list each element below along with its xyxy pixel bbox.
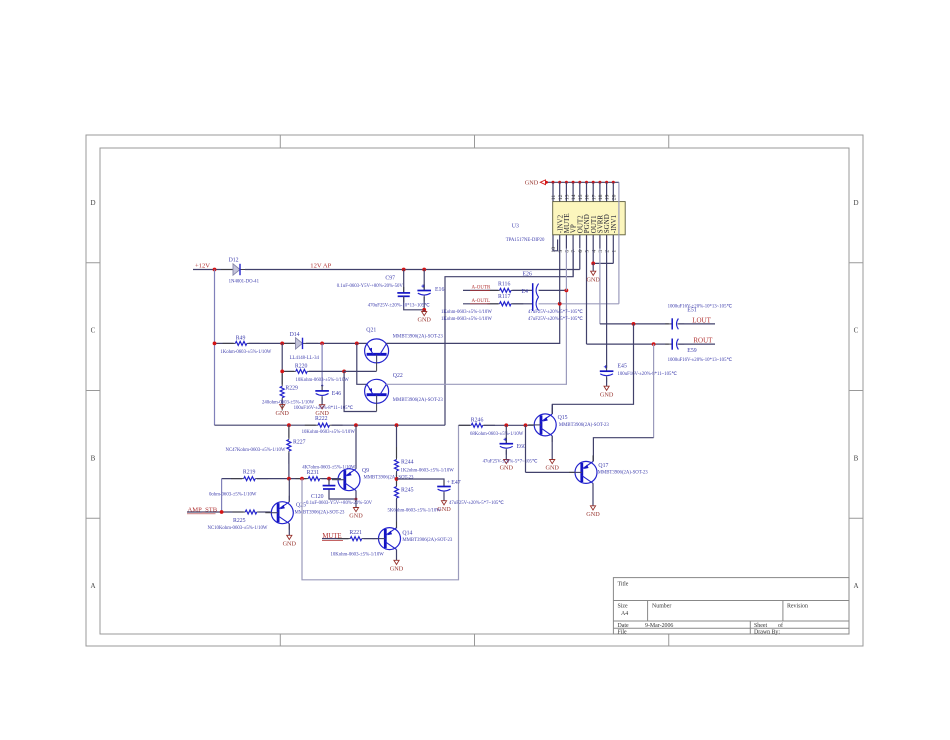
svg-text:C120: C120 bbox=[311, 494, 324, 500]
svg-text:1000uF16V-±20%-10*13~105℃: 1000uF16V-±20%-10*13~105℃ bbox=[668, 304, 733, 310]
svg-text:AMP_STB: AMP_STB bbox=[188, 507, 218, 514]
svg-text:12: 12 bbox=[558, 194, 564, 200]
svg-text:1Kohm-0603-±5%-1/10W: 1Kohm-0603-±5%-1/10W bbox=[441, 310, 492, 315]
svg-text:5: 5 bbox=[585, 250, 591, 253]
svg-text:A-OUTR: A-OUTR bbox=[472, 286, 492, 291]
svg-text:D: D bbox=[90, 199, 95, 207]
svg-text:18: 18 bbox=[598, 194, 604, 200]
svg-text:Q21: Q21 bbox=[366, 327, 376, 333]
svg-text:R117: R117 bbox=[498, 294, 510, 300]
svg-text:+12V: +12V bbox=[195, 263, 210, 270]
svg-text:File: File bbox=[618, 630, 628, 636]
svg-text:GND: GND bbox=[545, 465, 559, 472]
svg-text:R221: R221 bbox=[349, 530, 362, 536]
svg-text:D12: D12 bbox=[229, 258, 239, 264]
svg-text:GND: GND bbox=[525, 180, 539, 187]
svg-text:GND: GND bbox=[600, 391, 614, 398]
svg-text:1Kohm-0603-±5%-1/10W: 1Kohm-0603-±5%-1/10W bbox=[441, 317, 492, 322]
svg-text:R227: R227 bbox=[293, 440, 306, 446]
svg-text:10Kohm-0603-±5%-1/10W: 10Kohm-0603-±5%-1/10W bbox=[331, 553, 385, 558]
svg-text:0ohm-0603-±5%-1/10W: 0ohm-0603-±5%-1/10W bbox=[209, 492, 257, 497]
svg-text:NC47Kohm-0603-±5%-1/10W: NC47Kohm-0603-±5%-1/10W bbox=[226, 448, 286, 453]
svg-text:MMBT3906(2A)-SOT-23: MMBT3906(2A)-SOT-23 bbox=[393, 335, 444, 340]
svg-text:14: 14 bbox=[571, 194, 577, 200]
svg-text:20: 20 bbox=[611, 194, 617, 200]
svg-text:Q25: Q25 bbox=[296, 502, 306, 508]
svg-text:MUTE: MUTE bbox=[322, 533, 341, 540]
svg-text:MMBT3906(2A)-SOT-23: MMBT3906(2A)-SOT-23 bbox=[598, 471, 649, 476]
svg-text:GND: GND bbox=[417, 317, 431, 324]
svg-text:9: 9 bbox=[558, 250, 564, 253]
svg-text:1Kohm-0603-±5%-1/10W: 1Kohm-0603-±5%-1/10W bbox=[220, 350, 271, 355]
svg-text:100uF16V-±20%-8*11~105℃: 100uF16V-±20%-8*11~105℃ bbox=[618, 371, 678, 377]
svg-text:R219: R219 bbox=[243, 470, 256, 476]
svg-text:6: 6 bbox=[578, 250, 584, 253]
svg-text:8: 8 bbox=[565, 250, 571, 253]
svg-text:E46: E46 bbox=[332, 391, 341, 397]
svg-text:GND: GND bbox=[283, 541, 297, 548]
svg-text:U3: U3 bbox=[512, 223, 519, 229]
svg-text:A: A bbox=[853, 582, 858, 590]
svg-text:C: C bbox=[91, 327, 96, 335]
svg-text:0.1uF-0603-Y5V-+80%-20%-50V: 0.1uF-0603-Y5V-+80%-20%-50V bbox=[306, 501, 373, 506]
svg-text:A-OUTL: A-OUTL bbox=[472, 299, 491, 304]
svg-text:Q22: Q22 bbox=[393, 373, 403, 379]
svg-text:R220: R220 bbox=[295, 364, 308, 370]
svg-text:GND: GND bbox=[586, 276, 600, 283]
svg-text:C97: C97 bbox=[385, 275, 395, 281]
svg-text:R246: R246 bbox=[471, 417, 484, 423]
svg-text:Date: Date bbox=[618, 623, 630, 629]
svg-text:68Kohm-0603-±5%-1/10W: 68Kohm-0603-±5%-1/10W bbox=[470, 432, 524, 437]
svg-text:GND: GND bbox=[390, 566, 404, 573]
svg-text:2: 2 bbox=[605, 250, 611, 253]
svg-text:of: of bbox=[778, 622, 783, 629]
svg-text:MMBT3906(2A)-SOT-23: MMBT3906(2A)-SOT-23 bbox=[364, 476, 415, 481]
svg-text:Sheet: Sheet bbox=[754, 623, 767, 629]
svg-text:10: 10 bbox=[551, 247, 557, 253]
svg-text:Q15: Q15 bbox=[558, 415, 568, 421]
svg-text:R49: R49 bbox=[236, 336, 246, 342]
svg-text:7: 7 bbox=[571, 250, 577, 253]
svg-text:9-Mar-2006: 9-Mar-2006 bbox=[645, 623, 673, 629]
svg-text:1000uF16V-±20%-10*13~105℃: 1000uF16V-±20%-10*13~105℃ bbox=[668, 357, 733, 363]
svg-text:0.1uF-0603-Y5V-+80%-20%-50V: 0.1uF-0603-Y5V-+80%-20%-50V bbox=[337, 284, 404, 289]
svg-text:GND: GND bbox=[275, 410, 289, 417]
svg-text:MMBT3906(2A)-SOT-23: MMBT3906(2A)-SOT-23 bbox=[559, 423, 610, 428]
svg-text:E59: E59 bbox=[687, 348, 696, 354]
svg-text:5K6ohm-0603-±5%-1/10W: 5K6ohm-0603-±5%-1/10W bbox=[388, 508, 442, 513]
svg-text:19: 19 bbox=[605, 194, 611, 200]
svg-text:GND: GND bbox=[500, 465, 514, 472]
svg-text:C: C bbox=[854, 327, 859, 335]
svg-text:240ohm-0603-±5%-1/10W: 240ohm-0603-±5%-1/10W bbox=[262, 400, 315, 405]
svg-text:NC10Kohm-0603-±5%-1/10W: NC10Kohm-0603-±5%-1/10W bbox=[208, 526, 268, 531]
svg-text:12V AP: 12V AP bbox=[310, 263, 331, 270]
svg-text:R229: R229 bbox=[285, 385, 298, 391]
svg-text:MMBT3906(2A)-SOT-23: MMBT3906(2A)-SOT-23 bbox=[393, 398, 444, 403]
svg-text:D14: D14 bbox=[290, 332, 300, 338]
svg-text:D: D bbox=[853, 199, 858, 207]
svg-text:GND: GND bbox=[437, 506, 451, 513]
svg-text:47uF25V-±20%-5*7~105℃: 47uF25V-±20%-5*7~105℃ bbox=[528, 316, 583, 322]
svg-text:R244: R244 bbox=[401, 460, 414, 466]
svg-text:Q14: Q14 bbox=[402, 531, 412, 537]
svg-text:E60: E60 bbox=[517, 444, 526, 450]
svg-text:B: B bbox=[91, 454, 96, 462]
svg-text:R225: R225 bbox=[233, 518, 246, 524]
svg-text:+ E47: + E47 bbox=[447, 480, 461, 486]
svg-text:47uF25V-±20%-5*7~105℃: 47uF25V-±20%-5*7~105℃ bbox=[483, 459, 538, 465]
svg-text:11: 11 bbox=[551, 195, 557, 201]
svg-text:47uF25V-±20%-5*7~105℃: 47uF25V-±20%-5*7~105℃ bbox=[528, 309, 583, 315]
svg-text:E4: E4 bbox=[522, 289, 529, 295]
svg-text:4: 4 bbox=[591, 250, 597, 253]
svg-text:ROUT: ROUT bbox=[693, 337, 713, 345]
svg-text:E16: E16 bbox=[435, 287, 444, 293]
svg-text:R231: R231 bbox=[307, 470, 320, 476]
svg-text:470uF25V-±20%-10*13~105℃: 470uF25V-±20%-10*13~105℃ bbox=[368, 303, 430, 309]
svg-text:A: A bbox=[90, 582, 95, 590]
svg-text:Size: Size bbox=[618, 604, 629, 610]
svg-text:Title: Title bbox=[618, 582, 629, 588]
svg-text:Number: Number bbox=[652, 604, 671, 610]
svg-text:10Kohm-0603-±5%-1/10W: 10Kohm-0603-±5%-1/10W bbox=[302, 430, 356, 435]
svg-text:10Kohm-0603-±5%-1/10W: 10Kohm-0603-±5%-1/10W bbox=[296, 378, 350, 383]
svg-text:LL4148-LL-34: LL4148-LL-34 bbox=[290, 356, 320, 361]
svg-text:Q9: Q9 bbox=[362, 468, 369, 474]
svg-text:Revision: Revision bbox=[787, 604, 808, 610]
svg-text:17: 17 bbox=[591, 194, 597, 200]
svg-text:A4: A4 bbox=[621, 611, 628, 617]
svg-text:Drawn By:: Drawn By: bbox=[754, 630, 780, 636]
svg-text:R245: R245 bbox=[401, 487, 414, 493]
svg-text:1K2ohm-0603-±5%-1/10W: 1K2ohm-0603-±5%-1/10W bbox=[401, 469, 455, 474]
svg-text:MMBT3906(2A)-SOT-23: MMBT3906(2A)-SOT-23 bbox=[402, 538, 453, 543]
svg-text:15: 15 bbox=[578, 194, 584, 200]
svg-text:16: 16 bbox=[585, 194, 591, 200]
svg-text:E26: E26 bbox=[523, 272, 532, 278]
svg-text:-INV1: -INV1 bbox=[610, 214, 618, 233]
svg-text:E45: E45 bbox=[618, 364, 627, 370]
svg-text:47uF25V-±20%-5*7~105℃: 47uF25V-±20%-5*7~105℃ bbox=[449, 500, 504, 506]
svg-text:B: B bbox=[854, 454, 859, 462]
svg-text:R116: R116 bbox=[498, 281, 510, 287]
svg-text:1N4001-DO-41: 1N4001-DO-41 bbox=[229, 279, 260, 284]
svg-text:LOUT: LOUT bbox=[692, 317, 711, 325]
svg-text:13: 13 bbox=[565, 194, 571, 200]
svg-text:1: 1 bbox=[611, 250, 617, 253]
svg-text:TPA1517NE-DIP20: TPA1517NE-DIP20 bbox=[506, 238, 545, 243]
svg-text:GND: GND bbox=[586, 511, 600, 518]
svg-text:Q17: Q17 bbox=[598, 463, 608, 469]
svg-text:3: 3 bbox=[598, 250, 604, 253]
svg-text:GND: GND bbox=[349, 513, 363, 520]
